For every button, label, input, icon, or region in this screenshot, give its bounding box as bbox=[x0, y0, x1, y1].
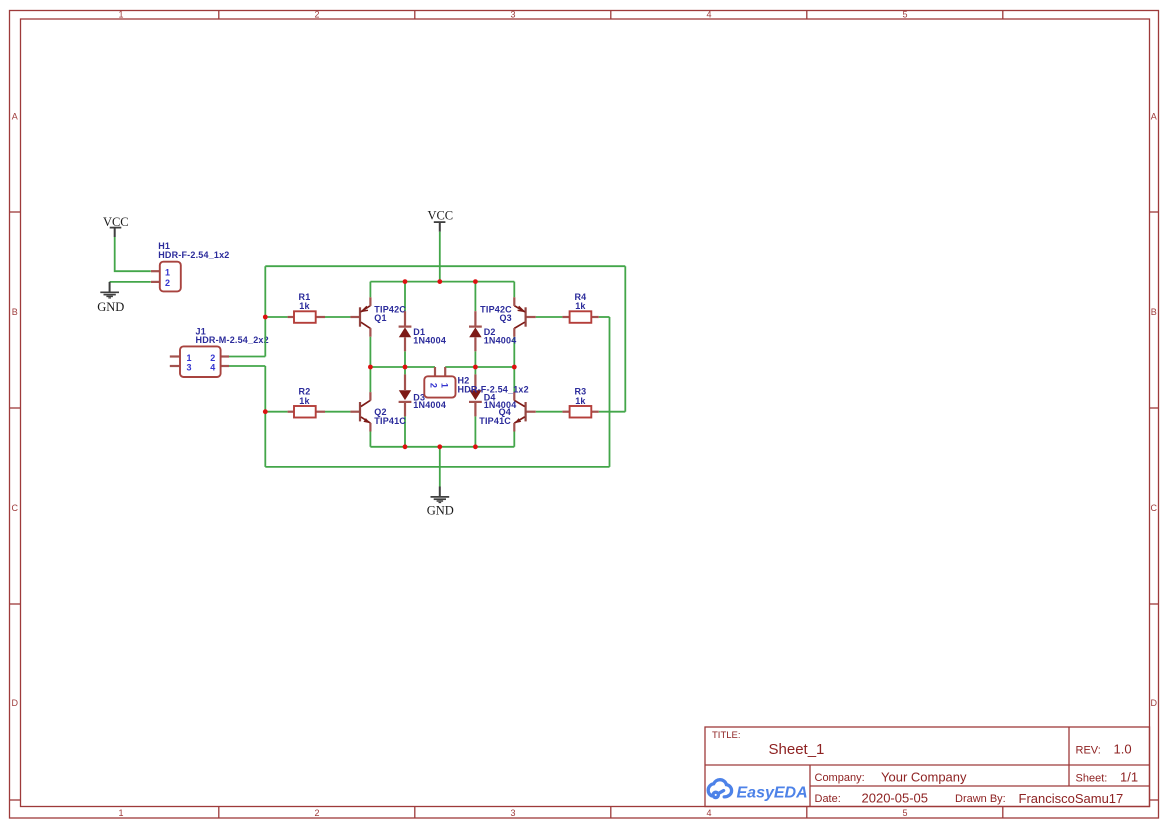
title block outline bbox=[705, 727, 1150, 807]
svg-text:GND: GND bbox=[97, 300, 124, 314]
wire R4 right bbox=[599, 316, 610, 318]
svg-text:TIP41C: TIP41C bbox=[374, 416, 406, 426]
wire D2 bottom bbox=[474, 351, 476, 367]
wire inner bottom rail bbox=[370, 446, 514, 448]
J1 pin 4 stub bbox=[221, 365, 229, 367]
svg-text:1N4004: 1N4004 bbox=[413, 336, 446, 346]
wire GND2 drop bbox=[439, 447, 441, 487]
ruler tick bottom 2 bbox=[414, 807, 416, 819]
H1 body bbox=[160, 262, 181, 292]
wire R4 output drop bbox=[609, 317, 611, 467]
wire Q1 collector column bbox=[369, 337, 371, 367]
svg-text:D: D bbox=[12, 698, 19, 708]
svg-text:FranciscoSamu17: FranciscoSamu17 bbox=[1019, 791, 1124, 806]
svg-text:HDR-F-2.54_1x2: HDR-F-2.54_1x2 bbox=[458, 385, 529, 395]
svg-text:C: C bbox=[12, 503, 19, 513]
title block row line 1 bbox=[705, 764, 1150, 766]
ruler tick right B/C bbox=[1150, 407, 1159, 409]
wire D4 top bbox=[474, 367, 476, 374]
J1 pin 2 stub bbox=[221, 355, 229, 357]
wire R1 left bbox=[265, 316, 287, 318]
title block column line logo bbox=[809, 765, 811, 807]
svg-text:REV:: REV: bbox=[1076, 745, 1101, 757]
junction D1 top rail bbox=[403, 279, 408, 284]
wire GND1 to H1 pin2 bbox=[110, 281, 151, 283]
connector H2 bbox=[424, 367, 529, 398]
diode D3 bbox=[399, 374, 446, 416]
svg-text:1N4004: 1N4004 bbox=[413, 400, 446, 410]
svg-text:4: 4 bbox=[210, 362, 215, 372]
wire top outer rail bbox=[265, 265, 625, 267]
svg-text:2: 2 bbox=[314, 9, 319, 19]
junction Q column mid rail left bbox=[368, 365, 373, 370]
connector H1 bbox=[151, 241, 230, 292]
transistor Q3 PNP bbox=[480, 297, 536, 336]
power symbol VCC (center) bbox=[434, 222, 446, 232]
svg-text:4: 4 bbox=[706, 9, 711, 19]
wire left rail upper bbox=[264, 266, 266, 356]
svg-text:GND: GND bbox=[427, 503, 454, 517]
svg-text:Date:: Date: bbox=[815, 793, 841, 805]
svg-text:B: B bbox=[12, 307, 18, 317]
connector J1 bbox=[170, 326, 269, 377]
ruler letters left bbox=[12, 111, 19, 708]
title block column line rev bbox=[1068, 727, 1070, 786]
ruler tick right D end bbox=[1150, 799, 1159, 801]
svg-text:5: 5 bbox=[902, 9, 907, 19]
junction GND bottom rail bbox=[437, 444, 442, 449]
wire left rail lower bbox=[264, 366, 266, 467]
diode D2 bbox=[469, 311, 516, 351]
junction D4 bottom rail bbox=[473, 444, 478, 449]
EasyEDA logo cloud bbox=[708, 780, 731, 798]
power symbol VCC (left) bbox=[110, 228, 122, 237]
wire Q4 emitter column bbox=[513, 432, 515, 447]
H2 body bbox=[424, 376, 455, 397]
resistor R3 bbox=[562, 387, 598, 418]
wire VCC1 to H1 pin1 bbox=[115, 237, 151, 271]
wire D1 top bbox=[404, 282, 406, 312]
wire right rail bbox=[624, 266, 626, 412]
svg-text:B: B bbox=[1151, 307, 1157, 317]
svg-text:Your Company: Your Company bbox=[881, 769, 967, 784]
svg-text:A: A bbox=[1151, 111, 1157, 121]
wire Q2 collector column bbox=[369, 367, 371, 392]
svg-text:3: 3 bbox=[187, 362, 192, 372]
wire VCC2 drop bbox=[439, 232, 441, 282]
wire R3 left bbox=[536, 411, 563, 413]
diode D4 bbox=[469, 374, 516, 416]
svg-text:2: 2 bbox=[210, 353, 215, 363]
svg-text:1: 1 bbox=[118, 808, 123, 818]
wire J1 pin2 to left rail bbox=[229, 356, 265, 358]
svg-text:HDR-M-2.54_2x2: HDR-M-2.54_2x2 bbox=[196, 335, 269, 345]
wire mid rail right bbox=[445, 366, 514, 368]
J1 pin 3 stub bbox=[170, 365, 180, 367]
ruler letters right bbox=[1151, 111, 1158, 708]
wire inner top rail bbox=[370, 281, 514, 283]
J1 body bbox=[180, 346, 221, 377]
svg-text:1N4004: 1N4004 bbox=[484, 336, 517, 346]
wire Q3 collector column bbox=[513, 337, 515, 367]
resistor R4 bbox=[562, 292, 598, 323]
transistor Q4 NPN bbox=[479, 392, 535, 431]
junction D1/D3 mid rail bbox=[403, 365, 408, 370]
svg-text:Q3: Q3 bbox=[499, 313, 511, 323]
ground symbol GND (center) bbox=[431, 487, 450, 503]
svg-text:1k: 1k bbox=[299, 301, 310, 311]
ruler tick top 5 bbox=[1002, 11, 1004, 20]
ruler tick left A/B bbox=[10, 211, 21, 213]
wire D3 bottom bbox=[404, 416, 406, 446]
svg-text:Q1: Q1 bbox=[374, 313, 386, 323]
svg-text:2: 2 bbox=[314, 808, 319, 818]
svg-text:2: 2 bbox=[165, 278, 170, 288]
svg-text:1/1: 1/1 bbox=[1120, 769, 1138, 784]
svg-text:1N4004: 1N4004 bbox=[484, 400, 517, 410]
ruler tick right A/B bbox=[1150, 211, 1159, 213]
svg-text:4: 4 bbox=[706, 808, 711, 818]
svg-text:HDR-F-2.54_1x2: HDR-F-2.54_1x2 bbox=[158, 250, 229, 260]
ruler tick top 1 bbox=[218, 11, 220, 20]
resistor R2 bbox=[288, 387, 325, 418]
ruler tick top 3 bbox=[610, 11, 612, 20]
junction D2 top rail bbox=[473, 279, 478, 284]
wire D3 top bbox=[404, 367, 406, 374]
wire D4 bottom bbox=[474, 416, 476, 446]
ruler tick right C/D bbox=[1150, 603, 1159, 605]
wire D1 bottom bbox=[404, 351, 406, 367]
svg-text:D: D bbox=[1151, 698, 1158, 708]
svg-text:1.0: 1.0 bbox=[1114, 742, 1132, 757]
svg-text:VCC: VCC bbox=[427, 208, 453, 222]
ruler tick bottom 1 bbox=[218, 807, 220, 819]
svg-text:1k: 1k bbox=[575, 396, 586, 406]
diode D1 bbox=[399, 311, 446, 351]
wire R4 left bbox=[536, 316, 563, 318]
ruler tick left D end bbox=[10, 799, 21, 801]
H2 pin 1 lead bbox=[444, 367, 446, 376]
svg-text:3: 3 bbox=[510, 9, 515, 19]
transistor Q2 NPN bbox=[350, 392, 406, 431]
junction at R1 left rail bbox=[263, 315, 268, 320]
svg-text:C: C bbox=[1151, 503, 1158, 513]
J1 pin 1 stub bbox=[170, 355, 180, 357]
ruler tick left B/C bbox=[10, 407, 21, 409]
svg-text:2020-05-05: 2020-05-05 bbox=[862, 790, 929, 805]
svg-text:TITLE:: TITLE: bbox=[712, 730, 741, 741]
svg-text:Company:: Company: bbox=[815, 772, 865, 784]
wire Q4 collector column bbox=[513, 367, 515, 392]
ruler numbers top bbox=[118, 9, 907, 19]
svg-text:2: 2 bbox=[429, 383, 439, 388]
wire mid rail left bbox=[370, 366, 435, 368]
ruler numbers bottom bbox=[118, 808, 907, 818]
resistor R1 bbox=[288, 292, 325, 323]
svg-text:EasyEDA: EasyEDA bbox=[737, 785, 808, 802]
wire J1 pin4 to left rail bbox=[229, 365, 265, 367]
wire R1 right bbox=[325, 316, 350, 318]
wire D2 top bbox=[474, 282, 476, 312]
H1 pin 1 stub bbox=[151, 270, 160, 272]
transistor Q1 PNP bbox=[350, 297, 406, 336]
H1 pin 2 stub bbox=[151, 281, 160, 283]
ruler tick bottom 4 bbox=[806, 807, 808, 819]
ruler tick left C/D bbox=[10, 603, 21, 605]
svg-text:1: 1 bbox=[440, 383, 450, 388]
svg-text:1: 1 bbox=[165, 267, 170, 277]
H2 pin 2 lead bbox=[434, 367, 436, 376]
wire R2 right bbox=[325, 411, 350, 413]
svg-text:1k: 1k bbox=[575, 301, 586, 311]
ground symbol GND (left) bbox=[100, 282, 119, 298]
ruler tick top 2 bbox=[414, 11, 416, 20]
junction VCC top rail bbox=[437, 279, 442, 284]
wire Q3 emitter column bbox=[513, 282, 515, 298]
wire Q2 emitter column bbox=[369, 432, 371, 447]
svg-text:1k: 1k bbox=[299, 396, 310, 406]
svg-text:3: 3 bbox=[510, 808, 515, 818]
wire Q1 emitter column bbox=[369, 282, 371, 298]
svg-text:1: 1 bbox=[118, 9, 123, 19]
ruler tick bottom 3 bbox=[610, 807, 612, 819]
junction D3 bottom rail bbox=[403, 444, 408, 449]
wire bottom outer rail bbox=[265, 466, 609, 468]
wire R3 right bbox=[599, 411, 626, 413]
svg-text:Sheet_1: Sheet_1 bbox=[769, 741, 825, 758]
ruler tick top 4 bbox=[806, 11, 808, 20]
svg-text:Sheet:: Sheet: bbox=[1076, 772, 1108, 784]
wire R2 left bbox=[265, 411, 287, 413]
svg-text:Drawn By:: Drawn By: bbox=[955, 793, 1006, 805]
junction Q column mid rail right bbox=[512, 365, 517, 370]
ruler tick bottom 5 bbox=[1002, 807, 1004, 819]
svg-text:5: 5 bbox=[902, 808, 907, 818]
svg-text:1: 1 bbox=[187, 353, 192, 363]
svg-text:TIP41C: TIP41C bbox=[479, 416, 511, 426]
svg-text:A: A bbox=[12, 111, 18, 121]
title block row line 2 bbox=[810, 785, 1150, 787]
junction at R2 left rail bbox=[263, 409, 268, 414]
junction D2/D4 mid rail bbox=[473, 365, 478, 370]
